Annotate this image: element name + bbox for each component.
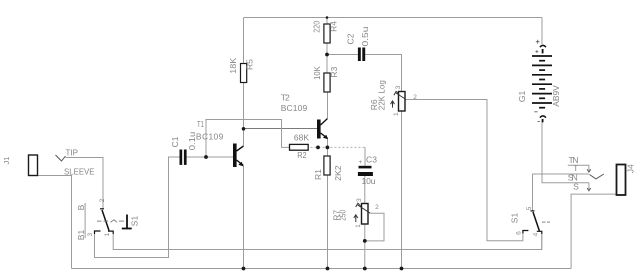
svg-text:5: 5 xyxy=(526,206,533,210)
capacitor C1 xyxy=(180,150,187,165)
svg-text:3: 3 xyxy=(87,233,94,237)
S1 pin6 contact xyxy=(523,231,529,234)
transistor T1 xyxy=(233,144,244,168)
svg-text:10K: 10K xyxy=(312,66,322,80)
svg-text:250: 250 xyxy=(337,210,347,221)
S1 lever right xyxy=(533,212,540,231)
node T2 emitter xyxy=(326,146,330,150)
svg-text:1: 1 xyxy=(393,112,400,116)
svg-text:R1: R1 xyxy=(313,169,323,180)
svg-text:10u: 10u xyxy=(362,176,376,186)
svg-text:2: 2 xyxy=(413,94,417,101)
svg-text:1: 1 xyxy=(355,224,362,228)
svg-text:T1: T1 xyxy=(197,119,204,129)
node ground T1 emitter xyxy=(242,267,246,271)
svg-text:+: + xyxy=(359,159,363,166)
wire J4 S to ground rail xyxy=(571,194,616,268)
svg-text:G1: G1 xyxy=(517,90,527,102)
wire R6 bottom to ground rail xyxy=(401,111,403,269)
node R4 R3 C2 xyxy=(325,53,329,57)
transistor T2 xyxy=(317,119,328,140)
wire C3 top lead xyxy=(364,147,366,165)
label battery minus xyxy=(534,112,540,122)
resistor R3 xyxy=(324,73,330,92)
svg-text:T: T xyxy=(573,163,578,173)
wire R4 bottom lead xyxy=(326,43,328,55)
svg-text:R2: R2 xyxy=(297,150,307,160)
node T2 base tap xyxy=(242,127,246,131)
svg-text:1: 1 xyxy=(104,232,111,236)
wire R3 bottom to T2 collector xyxy=(327,92,329,118)
wire S1 pin5 to J4 T xyxy=(533,174,589,211)
wire top supply rail xyxy=(244,17,543,19)
switch S1 left pole xyxy=(95,209,132,234)
connector J1 xyxy=(29,155,38,176)
J4 tip spring contact xyxy=(590,174,604,179)
J1 tip spring contact xyxy=(56,155,66,161)
resistor R1 xyxy=(324,156,330,175)
resistor R4 xyxy=(324,24,330,43)
svg-text:S1: S1 xyxy=(510,213,520,224)
svg-text:BC109: BC109 xyxy=(281,103,308,113)
svg-text:J4: J4 xyxy=(625,164,635,173)
svg-text:4: 4 xyxy=(533,232,540,236)
wire C1 input path from S1 pin3 xyxy=(95,157,180,258)
battery - terminal mark xyxy=(540,116,546,118)
label battery plus xyxy=(535,40,539,53)
wire C3 bottom to R7 pin3 xyxy=(364,176,366,204)
wire T1 emitter to ground rail xyxy=(243,166,245,269)
wire T2 base line xyxy=(244,128,318,130)
S1 pin5 contact xyxy=(531,210,535,212)
svg-text:2: 2 xyxy=(375,204,379,211)
svg-text:T2: T2 xyxy=(281,93,290,103)
wire emitter node to C3 dashed xyxy=(311,146,366,148)
svg-text:18K: 18K xyxy=(228,57,238,73)
svg-text:2: 2 xyxy=(99,198,106,202)
wire C1 to T1 base xyxy=(187,156,234,158)
node T1 base xyxy=(204,155,208,159)
node R2 right xyxy=(316,146,320,150)
wire J1 sleeve to ground rail xyxy=(38,176,72,269)
wire R7 wiper loop xyxy=(365,213,384,241)
svg-text:R5: R5 xyxy=(245,59,255,70)
wire R4 top lead xyxy=(326,18,328,25)
wire R1 top lead xyxy=(327,147,329,156)
battery G1 xyxy=(532,45,552,122)
svg-text:3: 3 xyxy=(356,198,363,202)
S1 pin2 contact xyxy=(100,208,104,210)
wire R1 bottom to ground rail xyxy=(327,175,329,269)
S1 pin3 contact xyxy=(95,231,101,234)
svg-text:6: 6 xyxy=(515,231,522,235)
svg-text:S1: S1 xyxy=(130,216,140,227)
wire R7 pin1 to node xyxy=(364,224,366,241)
wire S1 pin4 lead xyxy=(541,234,543,250)
node ground R1 xyxy=(326,267,330,271)
svg-text:3: 3 xyxy=(395,85,402,89)
wire S1 pin3 lead xyxy=(94,234,96,258)
node R4 top rail xyxy=(326,16,329,19)
wire R3 top lead xyxy=(326,55,328,74)
wire R5 top lead xyxy=(243,18,245,64)
svg-text:0.5u: 0.5u xyxy=(360,26,370,46)
J4 SN arrow xyxy=(587,188,591,191)
svg-text:TIP: TIP xyxy=(66,148,79,158)
wire battery + lead xyxy=(541,18,543,45)
svg-text:R3: R3 xyxy=(329,66,339,77)
potentiometer R6 xyxy=(391,91,407,111)
svg-text:22K Log: 22K Log xyxy=(377,80,387,110)
wire R2 feedback path xyxy=(206,120,289,158)
svg-text:C2: C2 xyxy=(345,33,355,44)
wire S1 pin1 to S1 pin4 rail xyxy=(113,234,542,250)
wire node to C2 xyxy=(327,54,358,56)
net stub B B1 xyxy=(84,203,86,238)
S1 pin1 contact xyxy=(108,231,113,234)
S1 right mechanical link dashes xyxy=(542,221,546,223)
svg-text:J1: J1 xyxy=(2,157,11,165)
wire battery - to J4 SN xyxy=(542,121,589,183)
svg-text:R4: R4 xyxy=(329,21,339,32)
svg-text:BC109: BC109 xyxy=(196,132,224,142)
wire R5 bottom to T1 collector xyxy=(243,83,245,146)
wire R7 node to ground rail xyxy=(364,241,366,269)
wire C2 to R6 pin3 xyxy=(365,55,402,92)
S1 actuator xyxy=(126,215,128,229)
svg-text:220: 220 xyxy=(312,21,322,33)
resistor R2 xyxy=(290,144,309,150)
S1 pin4 contact xyxy=(537,231,542,234)
wire ground bottom rail xyxy=(72,268,572,270)
capacitor C3 polarized xyxy=(358,166,373,176)
wire J1 tip to S1 pin2 xyxy=(66,158,104,209)
resistor R5 xyxy=(241,64,247,83)
node R7 bottom xyxy=(363,239,367,243)
net stub J4 TN xyxy=(568,165,589,170)
wire R6 wiper to S1 pin6 xyxy=(406,100,523,241)
switch S1 right pole xyxy=(523,211,550,234)
J4 TN arrow xyxy=(587,169,591,172)
battery + terminal mark xyxy=(540,45,546,47)
node ground C3 R7 xyxy=(363,267,367,271)
S1 lever xyxy=(102,210,109,231)
connector J4 xyxy=(617,165,626,196)
svg-text:AB9V: AB9V xyxy=(551,85,561,107)
svg-text:C1: C1 xyxy=(170,136,180,147)
svg-text:C3: C3 xyxy=(366,155,377,165)
svg-text:B: B xyxy=(76,204,86,210)
svg-text:B1: B1 xyxy=(76,230,86,241)
S1 mechanical link dashes xyxy=(97,220,102,222)
node ground R6 xyxy=(400,267,404,271)
svg-text:2K2: 2K2 xyxy=(333,165,343,181)
potentiometer R7 xyxy=(354,203,370,224)
svg-text:68K: 68K xyxy=(294,133,310,143)
svg-text:S: S xyxy=(573,181,579,191)
capacitor C2 xyxy=(358,48,365,62)
wire T2 emitter to node xyxy=(327,139,329,148)
svg-text:SLEEVE: SLEEVE xyxy=(64,167,95,177)
